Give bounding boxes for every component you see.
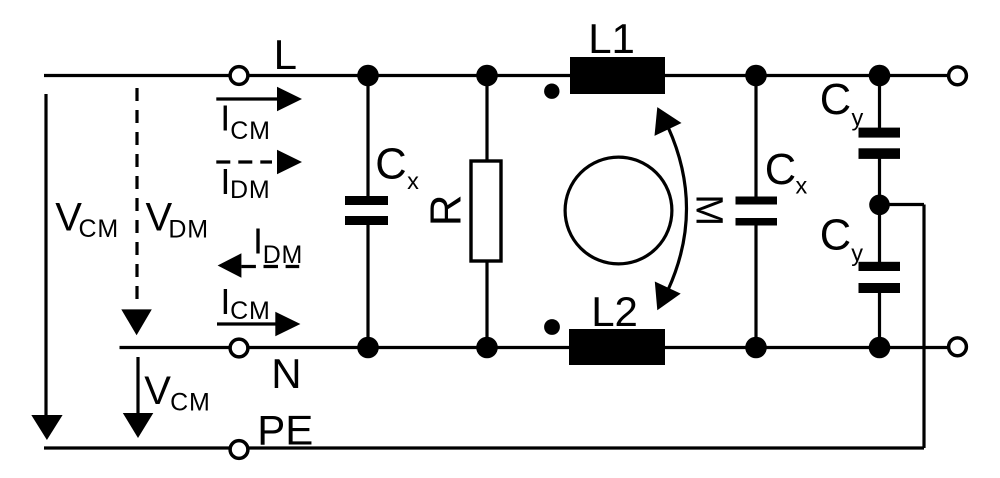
svg-text:CM: CM xyxy=(230,117,270,145)
svg-text:L2: L2 xyxy=(591,288,638,335)
svg-text:C: C xyxy=(820,212,851,260)
svg-text:L1: L1 xyxy=(588,15,635,62)
svg-text:C: C xyxy=(820,76,851,124)
svg-text:C: C xyxy=(765,146,796,194)
svg-text:CM: CM xyxy=(230,297,270,325)
svg-text:L: L xyxy=(274,31,297,78)
svg-text:C: C xyxy=(375,141,406,189)
svg-text:I: I xyxy=(220,281,230,322)
svg-text:y: y xyxy=(852,105,864,131)
svg-text:CM: CM xyxy=(79,215,119,243)
svg-text:M: M xyxy=(688,194,730,226)
svg-text:R: R xyxy=(422,195,471,227)
svg-text:PE: PE xyxy=(257,407,313,454)
svg-text:V: V xyxy=(144,369,171,413)
svg-text:I: I xyxy=(220,97,230,138)
svg-text:x: x xyxy=(407,168,419,194)
svg-text:N: N xyxy=(271,350,301,397)
svg-text:CM: CM xyxy=(170,389,210,417)
svg-text:DM: DM xyxy=(168,215,208,243)
svg-text:DM: DM xyxy=(230,176,270,204)
svg-text:I: I xyxy=(253,221,263,262)
svg-text:DM: DM xyxy=(263,241,303,269)
svg-text:x: x xyxy=(796,172,808,198)
svg-text:y: y xyxy=(851,240,863,266)
svg-text:I: I xyxy=(220,161,230,202)
